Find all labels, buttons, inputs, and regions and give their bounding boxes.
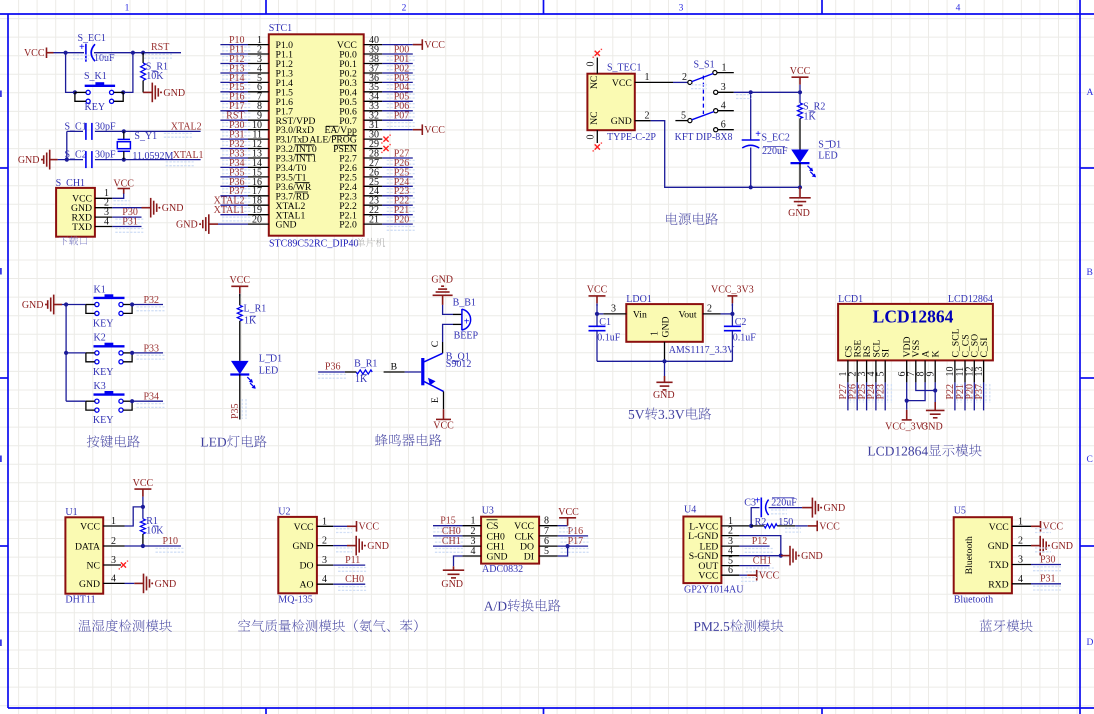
svg-text:GND: GND xyxy=(661,317,672,338)
wire LCD VSS to K xyxy=(916,382,935,390)
net label P30 (U5) xyxy=(1033,567,1061,571)
svg-text:VCC: VCC xyxy=(790,66,811,77)
svg-text:+: + xyxy=(79,42,85,53)
junction crystal bottom xyxy=(122,158,126,162)
power VCC (buzzer emitter) xyxy=(443,409,445,419)
wire TEC1 pin2 to bottom rail xyxy=(651,121,800,188)
resistor R1 xyxy=(140,519,145,534)
label 电源电路 xyxy=(666,213,718,225)
net label P36 xyxy=(318,374,346,378)
svg-text:GND: GND xyxy=(487,552,508,563)
svg-text:9: 9 xyxy=(925,372,936,377)
svg-text:P33: P33 xyxy=(144,343,160,354)
svg-text:GND: GND xyxy=(611,116,632,127)
wire U3 DO xyxy=(558,545,588,547)
push button K2 xyxy=(66,352,86,354)
wire U3 clk xyxy=(558,535,588,537)
svg-text:P30: P30 xyxy=(1040,554,1056,565)
svg-text:1: 1 xyxy=(322,516,327,527)
svg-text:10K: 10K xyxy=(146,71,164,82)
ground (supply) xyxy=(799,187,801,198)
svg-text:C: C xyxy=(430,341,441,347)
wire S_CH1 TXD xyxy=(112,226,141,228)
svg-text:ADC0832: ADC0832 xyxy=(482,564,523,575)
svg-text:GND: GND xyxy=(988,541,1009,552)
net label CH0 (U2) xyxy=(338,587,366,591)
svg-text:3: 3 xyxy=(111,555,116,566)
svg-text:R2: R2 xyxy=(755,517,767,528)
svg-text:L-GND: L-GND xyxy=(688,531,718,542)
net label CH1 (U3) xyxy=(435,549,463,553)
svg-text:C2: C2 xyxy=(735,317,747,328)
svg-text:Vout: Vout xyxy=(678,309,696,320)
label A/D转换电路 xyxy=(484,599,561,611)
svg-text:XTAL2: XTAL2 xyxy=(171,121,202,132)
junction led branch xyxy=(798,90,802,94)
svg-text:B: B xyxy=(1087,268,1093,278)
pin 4 S_CH1 xyxy=(95,226,112,228)
wire U4 L-GND xyxy=(739,536,780,556)
net label P25 (LCD) xyxy=(869,384,873,403)
svg-text:AMS1117_3.3V: AMS1117_3.3V xyxy=(669,345,735,356)
svg-text:K3: K3 xyxy=(94,381,106,392)
svg-text:S_K1: S_K1 xyxy=(84,71,107,82)
LCD pins xyxy=(847,360,849,382)
net label P24 (LCD) xyxy=(878,384,882,403)
svg-text:RXD: RXD xyxy=(988,579,1008,590)
svg-text:+: + xyxy=(755,129,761,140)
pin 0 bottom S_TEC1 xyxy=(596,130,598,143)
svg-text:E: E xyxy=(430,397,441,403)
wire U2 vcc xyxy=(333,525,347,527)
svg-text:SI: SI xyxy=(881,349,892,358)
svg-text:CH1: CH1 xyxy=(753,556,772,567)
svg-text:0.1uF: 0.1uF xyxy=(597,332,621,343)
svg-text:10K: 10K xyxy=(146,525,164,536)
pin 1 S_CH1 xyxy=(95,197,112,199)
svg-text:4: 4 xyxy=(721,101,726,112)
svg-text:2: 2 xyxy=(1018,536,1023,547)
svg-text:2: 2 xyxy=(402,4,407,14)
junction U4 pin1 xyxy=(749,524,753,528)
wire U3 DI xyxy=(558,546,568,556)
junction U4 gnd xyxy=(779,554,783,558)
svg-text:1: 1 xyxy=(722,62,727,73)
svg-text:VCC: VCC xyxy=(294,522,314,533)
svg-text:VCC: VCC xyxy=(819,521,840,532)
left margin clipped zone letters xyxy=(0,91,2,98)
net label P20 (LCD) xyxy=(977,384,981,403)
svg-text:BEEP: BEEP xyxy=(454,331,479,342)
U4 pins xyxy=(721,525,749,527)
label 空气质量检测模块 xyxy=(238,619,418,632)
net label P33 xyxy=(137,355,165,359)
key trunk vertical xyxy=(65,305,67,402)
wire U2 DO xyxy=(333,564,365,566)
svg-text:P2.0: P2.0 xyxy=(339,220,357,231)
svg-text:VCC: VCC xyxy=(24,48,45,59)
ground (U4) xyxy=(781,555,790,557)
svg-text:VCC: VCC xyxy=(698,571,718,582)
net label P17 (U3) xyxy=(561,549,589,553)
pin 1 LDO1 xyxy=(664,342,666,362)
label 蓝牙模块 xyxy=(980,620,1033,632)
wire U1 vcc jog xyxy=(125,507,143,526)
power VCC (U1) xyxy=(134,488,151,490)
svg-text:1: 1 xyxy=(1018,516,1023,527)
wire U4 OUT xyxy=(739,565,769,567)
svg-text:GND: GND xyxy=(79,579,100,590)
svg-text:L_R1: L_R1 xyxy=(244,304,267,315)
svg-text:20: 20 xyxy=(252,215,262,226)
label 按键电路 xyxy=(87,435,140,447)
svg-text:DI: DI xyxy=(524,552,534,563)
svg-text:VCC: VCC xyxy=(80,522,100,533)
ground (U1) xyxy=(134,582,143,584)
svg-text:VCC: VCC xyxy=(612,78,632,89)
svg-text:VCC: VCC xyxy=(230,275,251,286)
wire to key switch left xyxy=(66,53,75,93)
junction cap bottom xyxy=(749,185,753,189)
wire U5 RXD xyxy=(1031,583,1061,585)
wire TEC1 pin1 to switch xyxy=(673,81,688,83)
wire U3 vcc xyxy=(558,525,568,527)
svg-text:VCC: VCC xyxy=(989,522,1009,533)
svg-text:1: 1 xyxy=(645,72,650,83)
svg-text:TYPE-C-2P: TYPE-C-2P xyxy=(607,132,656,143)
junction LCD VDD xyxy=(905,399,909,403)
power VCC (MCU pin31) xyxy=(413,129,423,131)
ldo ground rail xyxy=(597,360,732,362)
svg-text:6: 6 xyxy=(728,565,733,576)
svg-text:LCD12864: LCD12864 xyxy=(873,307,954,327)
label 蜂鸣器电路 xyxy=(375,434,442,446)
svg-text:P34: P34 xyxy=(144,392,160,403)
wire U1 gnd xyxy=(125,582,135,584)
ground (ldo) xyxy=(664,361,666,376)
wire LED to P35 xyxy=(239,374,241,419)
svg-text:U5: U5 xyxy=(954,506,966,517)
svg-text:GND: GND xyxy=(155,579,177,590)
net label P27 (LCD) xyxy=(850,384,854,403)
wire LCD K down xyxy=(934,382,936,402)
no-ERC marker pin30 xyxy=(383,137,388,142)
pin 3 LDO1 xyxy=(603,313,626,315)
ground (reset resistor) xyxy=(143,91,152,93)
label PM2.5检测模块 xyxy=(694,620,784,632)
svg-text:VCC: VCC xyxy=(433,420,454,431)
svg-text:K: K xyxy=(931,351,942,358)
wire U1 data xyxy=(125,545,181,547)
svg-text:Bluetooth: Bluetooth xyxy=(954,595,993,606)
wire vout to 3V3 xyxy=(721,313,733,315)
wire XTAL2 row xyxy=(95,130,201,132)
wire U2 gnd xyxy=(333,545,347,547)
svg-text:GND: GND xyxy=(653,390,675,401)
svg-text:GND: GND xyxy=(431,275,453,286)
svg-text:KEY: KEY xyxy=(93,318,114,329)
svg-text:GND: GND xyxy=(788,208,810,219)
wire C3 branch xyxy=(751,508,759,526)
net label CH0 (U3) xyxy=(435,538,463,542)
ground (MCU pin20) xyxy=(218,223,248,225)
wire gnd to buzzer xyxy=(443,305,453,315)
svg-text:KEY: KEY xyxy=(93,415,114,426)
svg-text:VCC: VCC xyxy=(424,40,445,51)
svg-text:B: B xyxy=(391,362,397,373)
junction LCD K xyxy=(933,388,937,392)
svg-text:GND: GND xyxy=(801,551,823,562)
svg-text:30pF: 30pF xyxy=(95,121,116,132)
junction C1 xyxy=(595,312,599,316)
svg-text:S_EC2: S_EC2 xyxy=(762,132,790,143)
net label P22 (LCD) xyxy=(957,384,961,403)
svg-text:C: C xyxy=(1087,455,1093,465)
net label P31 (U5) xyxy=(1033,586,1061,590)
svg-text:30pF: 30pF xyxy=(95,150,116,161)
svg-text:GND: GND xyxy=(824,503,846,514)
junction U1 data xyxy=(141,544,145,548)
MCU pin name overlines (left) xyxy=(295,144,315,146)
ground (S_CH1) xyxy=(142,207,151,209)
svg-text:1: 1 xyxy=(650,331,661,336)
svg-text:P12: P12 xyxy=(752,536,768,547)
svg-text:P10: P10 xyxy=(163,536,179,547)
svg-text:C1: C1 xyxy=(599,317,611,328)
power VCC_3V3 (LCD) xyxy=(906,410,908,420)
svg-text:2: 2 xyxy=(645,111,650,122)
net label P30 (S_CH1) xyxy=(115,219,143,223)
svg-text:P07: P07 xyxy=(394,111,410,122)
pin 1 S_TEC1 xyxy=(635,81,673,83)
U1 pins xyxy=(103,525,124,527)
net label P23 (LCD) xyxy=(888,384,892,403)
junction reset-resistor xyxy=(141,51,145,55)
power VCC (U2) xyxy=(347,525,357,527)
svg-text:S_C1: S_C1 xyxy=(65,121,87,132)
wire U2 AO xyxy=(333,583,365,585)
svg-text:4: 4 xyxy=(956,4,961,14)
net label P35 xyxy=(242,399,246,419)
svg-text:6: 6 xyxy=(721,120,726,131)
svg-text:VCC: VCC xyxy=(587,285,608,296)
svg-text:XTAL1: XTAL1 xyxy=(214,205,245,216)
power VCC (U4 pin6) xyxy=(747,574,757,576)
svg-text:NC: NC xyxy=(87,561,100,572)
svg-text:VCC: VCC xyxy=(759,571,780,582)
net label P37 (LCD) xyxy=(986,384,990,403)
svg-text:RST: RST xyxy=(151,42,169,53)
junction C2 xyxy=(730,312,734,316)
junction key right xyxy=(121,90,125,94)
push button K3 xyxy=(66,400,86,402)
power VCC (U5) xyxy=(1031,525,1041,527)
svg-text:D: D xyxy=(1087,638,1094,648)
svg-text:NC: NC xyxy=(589,111,600,124)
svg-text:2: 2 xyxy=(682,72,687,83)
svg-text:1: 1 xyxy=(111,516,116,527)
svg-text:A: A xyxy=(1087,88,1094,98)
resistor L_R1 xyxy=(239,294,241,305)
svg-text:CH0: CH0 xyxy=(345,574,364,585)
wire K3 to P34 xyxy=(132,400,163,402)
net label P26 (LCD) xyxy=(860,384,864,403)
junction crystal top xyxy=(122,129,126,133)
wire R2 to VCC xyxy=(777,525,795,527)
svg-text:GND: GND xyxy=(921,421,943,432)
svg-text:VCC_3V3: VCC_3V3 xyxy=(711,285,754,296)
LED L_D1 xyxy=(231,361,249,374)
power VCC (MCU pin40) xyxy=(413,44,423,46)
svg-text:S9012: S9012 xyxy=(446,359,472,370)
net label P12 (U4) xyxy=(745,549,773,553)
wire resistor to LED xyxy=(239,321,241,361)
svg-text:S_S1: S_S1 xyxy=(694,60,715,71)
svg-text:DO: DO xyxy=(300,561,314,572)
MCU left net labels xyxy=(222,47,251,51)
junction trunk row1 xyxy=(64,302,68,306)
no-ERC marker U1 NC xyxy=(121,562,126,567)
svg-text:DHT11: DHT11 xyxy=(65,595,95,606)
net label P32 xyxy=(137,307,165,311)
svg-text:4: 4 xyxy=(111,573,116,584)
svg-text:2: 2 xyxy=(707,303,712,314)
svg-text:GND: GND xyxy=(163,88,185,99)
svg-text:K2: K2 xyxy=(94,333,106,344)
label LED灯电路 xyxy=(201,435,267,447)
svg-text:0: 0 xyxy=(586,135,597,140)
svg-text:CH1: CH1 xyxy=(442,536,461,547)
svg-text:LED: LED xyxy=(259,365,278,376)
svg-text:P31: P31 xyxy=(122,216,138,227)
svg-text:P37: P37 xyxy=(974,384,985,400)
svg-text:K1: K1 xyxy=(94,284,106,295)
no-ERC marker S_TEC1 top xyxy=(595,51,600,56)
svg-text:P32: P32 xyxy=(144,295,160,306)
svg-text:2: 2 xyxy=(322,536,327,547)
emitter wire xyxy=(443,391,445,409)
svg-text:3: 3 xyxy=(322,555,327,566)
wire cap branch vertical xyxy=(750,92,752,140)
wire gnd to caps bottom row xyxy=(58,159,83,161)
ground (LCD) xyxy=(934,402,936,410)
svg-text:Bluetooth: Bluetooth xyxy=(964,536,975,574)
resistor S_R1 xyxy=(142,53,144,63)
wire left vertical between cap rows xyxy=(66,131,68,159)
svg-text:B_B1: B_B1 xyxy=(453,298,476,309)
resistor S_R2 xyxy=(798,103,803,119)
net label P21 (LCD) xyxy=(967,384,971,403)
svg-text:GND: GND xyxy=(367,541,389,552)
net label P11 (U2) xyxy=(338,568,366,572)
MCU right pins xyxy=(364,44,383,46)
junction ldo ground xyxy=(662,359,666,363)
svg-text:13: 13 xyxy=(974,367,985,377)
compile marks (misc wires) xyxy=(336,529,352,533)
crystal S_Y1 xyxy=(123,131,125,139)
MCU left pins xyxy=(248,44,269,46)
label 温湿度检测模块 xyxy=(78,619,171,632)
svg-text:+: + xyxy=(464,317,470,328)
svg-text:P17: P17 xyxy=(568,536,584,547)
ground (U5) xyxy=(1031,545,1040,547)
wire U4 LED xyxy=(739,545,769,547)
wire K2 to P33 xyxy=(132,352,163,354)
svg-text:VCC: VCC xyxy=(359,522,380,533)
svg-text:VCC: VCC xyxy=(113,178,134,189)
junction trunk row2 xyxy=(64,351,68,355)
MCU right pin wires xyxy=(382,44,413,46)
wire to key switch right xyxy=(123,53,133,93)
svg-text:2: 2 xyxy=(728,526,733,537)
svg-text:U3: U3 xyxy=(482,506,494,517)
svg-text:TXD: TXD xyxy=(989,560,1009,571)
power VCC_3V3 (ldo) xyxy=(727,295,737,297)
switch pin stubs xyxy=(717,72,734,74)
svg-text:3: 3 xyxy=(1018,555,1023,566)
svg-text:VCC: VCC xyxy=(424,125,445,136)
wire top row to S_C1 xyxy=(67,130,83,132)
svg-text:STC1: STC1 xyxy=(269,23,292,34)
wire supply resistor xyxy=(799,92,801,103)
MCU left pin wires xyxy=(220,44,248,46)
wire K1 to P32 xyxy=(132,304,163,306)
wire S_CH1 pin2 to GND xyxy=(112,207,141,209)
svg-text:3: 3 xyxy=(611,303,616,314)
svg-text:VCC: VCC xyxy=(133,478,154,489)
junction caps left xyxy=(65,158,69,162)
svg-text:VCC: VCC xyxy=(558,507,579,518)
svg-text:Vin: Vin xyxy=(633,309,647,320)
net label P34 xyxy=(137,404,165,408)
svg-text:TXD: TXD xyxy=(72,222,92,233)
ground (C3) xyxy=(802,507,812,509)
net label P16 (U3) xyxy=(561,538,589,542)
push button K1 xyxy=(62,304,86,306)
wire XTAL1 row xyxy=(95,159,201,161)
svg-text:2: 2 xyxy=(111,536,116,547)
pin 3 S_CH1 xyxy=(95,216,112,218)
capacitor S_EC2 xyxy=(742,139,760,141)
svg-text:4: 4 xyxy=(322,574,327,585)
svg-text:GND: GND xyxy=(176,220,198,231)
net label P10 (U1) xyxy=(156,548,184,552)
svg-text:220uF: 220uF xyxy=(771,498,797,509)
wire cap to RST xyxy=(94,52,181,54)
svg-text:GND: GND xyxy=(162,203,184,214)
junction U3 DO-DI xyxy=(566,544,570,548)
net label P31 (S_CH1) xyxy=(115,229,143,233)
svg-text:MQ-135: MQ-135 xyxy=(278,594,312,605)
wire S_CH1 pin1 to VCC xyxy=(112,194,123,199)
svg-text:S_TEC1: S_TEC1 xyxy=(607,62,641,73)
wire switch pin3 to VCC rail xyxy=(734,91,800,93)
net label XTAL1 xyxy=(166,162,194,166)
wire VCC to RST rail xyxy=(54,52,85,54)
U3 left wires xyxy=(433,525,462,527)
label 单片机 xyxy=(356,238,385,247)
junction reset-key left xyxy=(64,51,68,55)
pin 2 S_TEC1 xyxy=(635,120,651,122)
svg-text:U4: U4 xyxy=(684,505,696,516)
MCU pin name overlines (right) xyxy=(326,125,338,127)
pin 0 top S_TEC1 xyxy=(596,58,598,74)
wire P36 to resistor xyxy=(318,371,345,373)
svg-text:NC: NC xyxy=(589,76,600,89)
resistor R2 xyxy=(751,525,764,527)
svg-text:C_SI: C_SI xyxy=(979,338,990,358)
LED S_D1 xyxy=(791,150,809,163)
